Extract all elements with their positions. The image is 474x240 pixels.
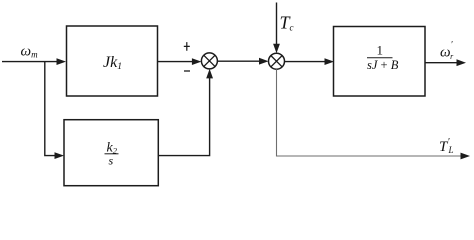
block Jk1: [67, 26, 158, 96]
summing junction 2: [269, 53, 285, 69]
wire: junction 2 to right block: [285, 61, 328, 63]
block k2/s: [64, 120, 158, 186]
label 1/(sJ+B) fraction: [367, 43, 399, 73]
svg-text:1: 1: [377, 43, 384, 58]
wire: Jk1 output to summing junction 1: [158, 61, 196, 63]
arrowhead into k2/s block: [55, 152, 65, 159]
wire: input omega_m line: [2, 61, 60, 63]
block 1/(sJ+B): [334, 27, 426, 97]
plus sign: [184, 42, 190, 51]
wire: branch down from input line: [45, 62, 58, 156]
label k2/s fraction: [105, 141, 119, 168]
arrowhead into Jk1 block: [57, 58, 67, 65]
wire: junction 2 down and right to T'_L output: [277, 69, 464, 156]
summing junction 1: [201, 53, 217, 69]
arrowhead into junction 2: [259, 58, 269, 65]
wire: Tc input from top: [276, 3, 278, 47]
arrowhead into junction 1 bottom: [206, 69, 213, 79]
minus sign: [184, 70, 190, 72]
svg-text:s: s: [109, 154, 114, 168]
arrowhead into junction 2 top: [273, 44, 280, 54]
arrowhead output right: [457, 59, 467, 66]
arrowhead into right block: [325, 58, 335, 65]
svg-text:sJ + B: sJ + B: [367, 58, 399, 72]
wire: junction 1 to junction 2: [217, 60, 262, 62]
arrowhead T'_L output: [461, 153, 471, 160]
arrowhead into junction 1: [192, 58, 202, 65]
wire: k2/s output up into junction 1: [158, 75, 209, 155]
wire: output omega'_r: [425, 62, 459, 64]
